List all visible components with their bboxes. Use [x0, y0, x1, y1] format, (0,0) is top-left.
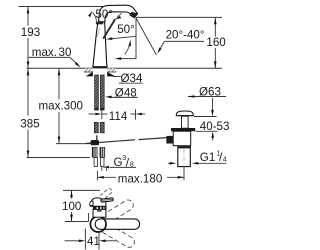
left knob [90, 201, 93, 205]
faucet spout [99, 5, 138, 22]
hose connector nuts [92, 147, 98, 158]
svg-text:50°: 50° [95, 8, 113, 21]
wire: deck top line right of faucet [107, 67, 222, 69]
dashed spout position upper [102, 200, 133, 224]
svg-text:4: 4 [223, 157, 227, 164]
dark band under dome [93, 206, 107, 209]
svg-text:160: 160 [206, 36, 225, 49]
tailpipe centerline [183, 149, 185, 176]
wire: deck top line left of faucet [27, 67, 93, 69]
tailpipe [178, 148, 191, 167]
svg-text:193: 193 [21, 26, 40, 39]
dimension 160 [214, 17, 216, 36]
faucet body (side view) [93, 17, 107, 66]
svg-text:G1: G1 [200, 151, 215, 164]
pivot knob [166, 136, 173, 144]
waste body [173, 131, 191, 146]
swivel circle outline [90, 216, 106, 232]
solid spout pill [95, 219, 139, 229]
connector outlet pipes [94, 158, 97, 167]
deck hatched section right [107, 68, 116, 72]
small extension ticks below connectors [101, 167, 103, 172]
dimension max.300 vertical line [58, 69, 60, 99]
dimension max.180 [96, 171, 98, 181]
lever grip rod [101, 198, 114, 203]
mounting wedge right [107, 72, 115, 77]
wire: max.300 bottom extension line [56, 143, 93, 145]
dimension 100 [63, 189, 100, 191]
pop-up rod ball joint [91, 140, 99, 145]
front view body [93, 209, 106, 217]
dimension 41 [84, 229, 86, 250]
dimension 193 vertical line [27, 7, 29, 26]
diagonal water stream line [136, 18, 157, 55]
svg-text:20°-40°: 20°-40° [166, 29, 205, 42]
svg-text:max.180: max.180 [118, 172, 162, 185]
dimension 40-53 [194, 116, 217, 118]
svg-text:40-53: 40-53 [200, 120, 230, 133]
waste flange [171, 128, 195, 131]
inclined open-lever line with arrow [112, 36, 136, 38]
angle arc with up arrow [128, 40, 131, 47]
dimension 385 vertical line [27, 69, 29, 116]
joint band [177, 146, 191, 148]
wire: top extension line over spout [19, 6, 104, 8]
pop-up plug cap [176, 111, 193, 116]
svg-text:41: 41 [87, 235, 100, 248]
threaded shank rods [95, 75, 99, 110]
wire: spout tip extension line [136, 16, 222, 18]
swivel circle (white fill to mask dashes) [90, 216, 106, 232]
svg-text:max.300: max.300 [39, 100, 83, 113]
pop-up rod vertical pin [96, 135, 98, 140]
wire: 385 bottom extension line [27, 157, 90, 159]
dimension 114 [101, 111, 103, 120]
vertical reference line from spout tip [135, 18, 137, 59]
deck hatched section left [84, 68, 93, 72]
svg-text:385: 385 [20, 117, 39, 130]
dashed spout position lower [103, 223, 135, 247]
svg-text:max.30: max.30 [32, 46, 72, 59]
svg-text:100: 100 [62, 200, 81, 213]
pop-up horizontal rod [86, 140, 136, 144]
dashed lever ghost [100, 189, 112, 200]
base gasket dark band [93, 67, 107, 69]
body neck dark band [96, 22, 103, 24]
spout outlet dark face [130, 12, 138, 18]
horizontal 50deg leg with arrow [121, 58, 137, 60]
faucet lever [104, 20, 115, 38]
plug stem [182, 116, 189, 128]
dome top [91, 198, 106, 206]
ghost lever line inside body [96, 28, 100, 39]
mounting wedge left [86, 72, 93, 77]
svg-text:114: 114 [109, 110, 128, 123]
flexible hoses [94, 122, 98, 133]
svg-text:50°: 50° [117, 23, 135, 36]
